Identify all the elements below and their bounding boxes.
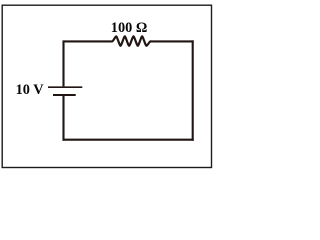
wire left lower (from battery -) [62,95,64,141]
svg-text:100 Ω: 100 Ω [111,20,147,36]
resistor R1 [112,36,150,45]
wire left upper (to battery +) [62,40,64,86]
wire bottom [63,139,194,141]
wire right side [192,40,194,140]
wire top-right lead [151,40,194,42]
battery V1 [48,87,82,95]
wire top-left lead [64,40,113,42]
svg-text:10 V: 10 V [16,82,45,98]
